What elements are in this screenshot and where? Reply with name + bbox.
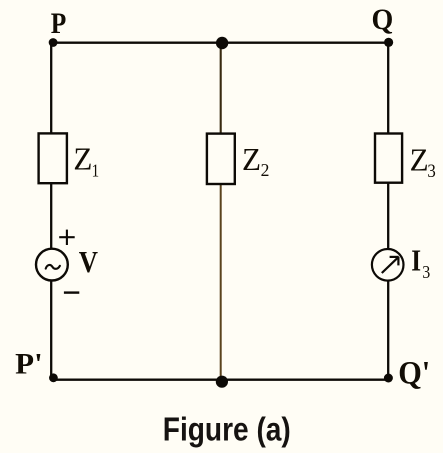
wire left rail upper [50,43,52,134]
wire right rail lower [387,280,389,379]
node P' junction dot [49,373,58,382]
wire right rail middle [387,183,389,249]
svg-text:Q: Q [372,3,394,36]
current source I3 [372,249,404,281]
svg-text:Z: Z [242,141,261,177]
svg-text:V: V [79,244,99,279]
plus sign [59,236,74,238]
node P junction dot [49,38,58,47]
wire right rail upper [387,43,389,134]
wire left rail middle [50,183,52,249]
svg-text:Figure (a): Figure (a) [163,412,291,449]
wire left rail lower [50,280,52,379]
wire bottom P' to Q' [51,379,388,381]
bottom middle junction dot [216,376,228,388]
minus sign [64,291,79,293]
arrow inside I3 [382,257,399,273]
impedance Z3 [375,134,402,183]
svg-text:P': P' [15,348,43,381]
voltage source V [36,249,68,281]
svg-text:I: I [411,243,421,278]
impedance Z2 [207,134,235,184]
svg-text:3: 3 [422,262,430,282]
svg-text:2: 2 [261,160,270,180]
svg-text:3: 3 [427,162,435,182]
svg-text:Q': Q' [398,355,430,391]
wire middle rail lower [220,184,222,380]
wire top P to Q [51,42,388,44]
svg-text:1: 1 [92,161,100,181]
node Q junction dot [384,38,393,47]
sine symbol inside V [46,265,60,269]
wire middle rail upper [220,43,222,134]
svg-text:Z: Z [73,140,92,176]
svg-text:Z: Z [410,142,429,178]
top middle junction dot [216,37,228,49]
node Q' junction dot [384,374,393,383]
impedance Z1 [39,133,67,183]
svg-text:P: P [51,7,67,40]
